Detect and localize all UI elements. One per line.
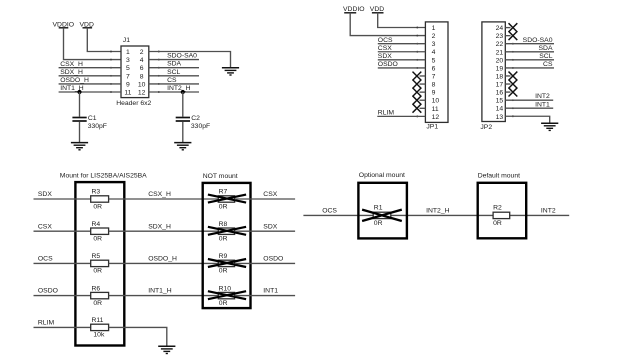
wire net OSDO_H to J1 pin 9 xyxy=(59,83,121,85)
svg-text:SCL: SCL xyxy=(167,69,180,76)
wire INT1_H to C1 xyxy=(79,92,81,117)
svg-text:0R: 0R xyxy=(93,268,102,275)
resistor R10 0R xyxy=(218,285,234,307)
svg-text:R6: R6 xyxy=(92,285,101,292)
svg-text:OSDO: OSDO xyxy=(378,61,398,68)
no-connect JP2 pin 18 xyxy=(505,72,517,81)
svg-text:15: 15 xyxy=(496,98,504,105)
no-connect JP2 pin 24 xyxy=(505,23,517,32)
svg-text:SDA: SDA xyxy=(539,45,553,52)
svg-text:4: 4 xyxy=(140,57,144,64)
svg-text:SCL: SCL xyxy=(539,53,552,60)
no-connect JP2 pin 16 xyxy=(505,88,517,97)
wire net SDX from R8 xyxy=(235,230,296,232)
svg-text:SDX_H: SDX_H xyxy=(148,223,171,230)
wire VDD to J1 pin 1 xyxy=(87,28,121,52)
connector J1 Header 6x2 xyxy=(110,37,160,107)
wire net CSX_H to J1 pin 5 xyxy=(59,67,121,69)
wire net CSX to JP1 pin 4 xyxy=(378,51,426,53)
wire net CS from JP2 pin 19 xyxy=(505,67,554,69)
svg-text:R1: R1 xyxy=(374,205,383,212)
svg-text:JP1: JP1 xyxy=(426,124,438,131)
svg-text:2: 2 xyxy=(432,33,436,40)
svg-text:5: 5 xyxy=(126,65,130,72)
svg-text:VDD: VDD xyxy=(370,6,384,13)
svg-text:INT1: INT1 xyxy=(263,288,278,295)
not-mounted cross over R8 xyxy=(208,227,246,235)
svg-text:6: 6 xyxy=(140,65,144,72)
svg-text:3: 3 xyxy=(432,41,436,48)
svg-text:11: 11 xyxy=(432,106,439,113)
svg-text:19: 19 xyxy=(496,65,504,72)
wire net SCL from JP2 pin 20 xyxy=(505,59,554,61)
svg-text:16: 16 xyxy=(496,90,504,97)
svg-text:5: 5 xyxy=(432,57,436,64)
svg-text:INT2: INT2 xyxy=(535,93,550,100)
box Default mount xyxy=(478,183,527,239)
ground below C1 xyxy=(71,143,88,150)
junction node INT1_H xyxy=(77,90,81,94)
ground below C2 xyxy=(174,143,191,150)
svg-text:0R: 0R xyxy=(219,236,228,243)
no-connect JP1 pin 10 xyxy=(413,96,426,105)
box Mount for LIS25BA/AIS25BA xyxy=(75,182,124,345)
no-connect JP2 pin 23 xyxy=(505,31,517,40)
svg-text:OSDO_H: OSDO_H xyxy=(148,256,177,263)
no-connect JP1 pin 9 xyxy=(413,88,426,97)
wire net INT1_H to J1 pin 11 xyxy=(59,91,121,93)
wire net SDX to JP1 pin 5 xyxy=(378,59,426,61)
svg-text:R4: R4 xyxy=(92,221,101,228)
wire VDDIO to JP1 pin 2 xyxy=(350,13,425,36)
no-connect JP2 pin 17 xyxy=(505,80,517,89)
wire INT2_H to C2 xyxy=(182,92,184,117)
svg-text:Optional mount: Optional mount xyxy=(359,172,405,179)
not-mounted cross over R10 xyxy=(208,291,246,299)
svg-text:CSX: CSX xyxy=(263,191,277,198)
svg-text:11: 11 xyxy=(124,90,131,97)
svg-text:INT2_H: INT2_H xyxy=(426,207,450,214)
wire net CSX to R4 xyxy=(34,230,91,232)
svg-text:21: 21 xyxy=(496,49,504,56)
svg-text:20: 20 xyxy=(496,57,504,64)
svg-text:12: 12 xyxy=(432,114,440,121)
svg-text:CS: CS xyxy=(167,77,177,84)
wire net INT1 from R10 xyxy=(235,295,296,297)
svg-text:CS: CS xyxy=(543,61,553,68)
svg-text:OCS: OCS xyxy=(378,37,393,44)
svg-text:RLIM: RLIM xyxy=(378,109,395,116)
svg-text:SDX_H: SDX_H xyxy=(60,69,83,76)
wire net SDA from J1 pin 6 xyxy=(149,67,199,69)
svg-text:4: 4 xyxy=(432,49,436,56)
svg-text:OSDO_H: OSDO_H xyxy=(60,77,89,84)
connector JP2 xyxy=(480,22,513,131)
wire J1 pin 2 to ground xyxy=(149,52,231,68)
wire net RLIM to JP1 pin 12 xyxy=(377,115,425,117)
no-connect JP1 pin 11 xyxy=(413,104,426,113)
svg-text:C2: C2 xyxy=(191,115,200,122)
wire net CS from J1 pin 10 xyxy=(149,83,199,85)
wire R11 to ground xyxy=(109,327,167,346)
not-mounted cross over R1 xyxy=(362,210,402,221)
ground at JP2 pin 13 xyxy=(541,123,558,130)
wire C2 to ground xyxy=(182,122,184,143)
resistor R1 0R xyxy=(373,205,391,227)
svg-text:17: 17 xyxy=(496,82,504,89)
svg-text:SDX: SDX xyxy=(263,223,277,230)
wire net INT1 from JP2 pin 14 xyxy=(505,107,553,109)
wire net INT1_H from R6 to R10 xyxy=(109,295,219,297)
svg-text:R11: R11 xyxy=(92,317,104,324)
wire net OCS to JP1 pin 3 xyxy=(378,43,426,45)
resistor R3 0R xyxy=(91,189,109,211)
ground below R11 xyxy=(158,346,175,353)
resistor R7 0R xyxy=(218,189,234,211)
svg-text:SDX: SDX xyxy=(38,191,52,198)
svg-text:INT1_H: INT1_H xyxy=(148,288,172,295)
svg-text:1: 1 xyxy=(432,25,436,32)
svg-text:Default mount: Default mount xyxy=(478,172,520,179)
svg-text:12: 12 xyxy=(138,90,146,97)
svg-text:OCS: OCS xyxy=(322,207,337,214)
svg-text:0R: 0R xyxy=(493,220,502,227)
wire net INT2 from JP2 pin 15 xyxy=(505,99,553,101)
wire net OSDO to R6 xyxy=(34,295,91,297)
svg-text:CSX: CSX xyxy=(378,45,392,52)
svg-text:6: 6 xyxy=(432,65,436,72)
svg-text:SDO-SA0: SDO-SA0 xyxy=(167,53,197,60)
wire net SDX_H from R4 to R8 xyxy=(109,230,219,232)
power symbol VDD xyxy=(370,6,384,13)
svg-text:330pF: 330pF xyxy=(191,123,210,130)
svg-text:RLIM: RLIM xyxy=(38,320,55,327)
svg-text:0R: 0R xyxy=(219,300,228,307)
svg-text:SDX: SDX xyxy=(378,53,392,60)
not-mounted cross over R7 xyxy=(208,195,246,203)
svg-text:INT2_H: INT2_H xyxy=(167,85,191,92)
svg-text:INT1: INT1 xyxy=(535,101,550,108)
wire net SDX to R3 xyxy=(34,198,91,200)
svg-text:SDO-SA0: SDO-SA0 xyxy=(523,37,553,44)
no-connect JP1 pin 7 xyxy=(413,72,426,81)
not-mounted cross over R9 xyxy=(208,259,246,267)
svg-text:CSX_H: CSX_H xyxy=(60,61,83,68)
svg-text:0R: 0R xyxy=(374,220,383,227)
svg-text:R5: R5 xyxy=(92,253,101,260)
box NOT mount xyxy=(203,183,251,308)
box Optional mount xyxy=(358,183,407,239)
resistor R2 0R xyxy=(493,205,510,227)
wire net SDX_H to J1 pin 7 xyxy=(59,75,121,77)
wire net RLIM to R11 xyxy=(34,326,91,328)
wire JP2 pin 13 to ground xyxy=(505,116,549,123)
svg-text:2: 2 xyxy=(140,49,144,56)
power symbol VDDIO xyxy=(343,6,365,13)
svg-text:Header 6x2: Header 6x2 xyxy=(116,100,151,107)
wire net SDA from JP2 pin 21 xyxy=(505,51,554,53)
resistor R9 0R xyxy=(218,253,234,275)
svg-text:1: 1 xyxy=(126,49,130,56)
svg-text:0R: 0R xyxy=(219,203,228,210)
svg-text:24: 24 xyxy=(496,25,504,32)
svg-text:OSDO: OSDO xyxy=(38,288,58,295)
svg-text:R9: R9 xyxy=(219,253,228,260)
svg-text:0R: 0R xyxy=(93,203,102,210)
svg-text:OCS: OCS xyxy=(38,256,53,263)
junction node INT2_H xyxy=(181,90,185,94)
capacitor C1 330pF xyxy=(72,115,107,130)
wire net OSDO_H from R5 to R9 xyxy=(109,262,219,264)
no-connect JP1 pin 8 xyxy=(413,80,426,89)
wire net CSX from R7 xyxy=(235,198,296,200)
svg-text:330pF: 330pF xyxy=(88,123,107,130)
wire net OCS to R5 xyxy=(34,262,91,264)
svg-text:INT2: INT2 xyxy=(541,207,556,214)
svg-text:Mount for LIS25BA/AIS25BA: Mount for LIS25BA/AIS25BA xyxy=(60,172,147,179)
svg-text:0R: 0R xyxy=(93,236,102,243)
wire net OCS / INT2_H / INT2 xyxy=(303,214,569,216)
resistor R8 0R xyxy=(218,221,234,243)
power symbol VDDIO xyxy=(53,21,75,28)
svg-text:9: 9 xyxy=(432,90,436,97)
wire net CSX_H from R3 to R7 xyxy=(109,198,219,200)
svg-text:9: 9 xyxy=(126,81,130,88)
resistor R5 0R xyxy=(91,253,109,275)
ground at J1 pin 2 xyxy=(222,68,239,75)
capacitor C2 330pF xyxy=(176,115,210,130)
svg-text:14: 14 xyxy=(496,106,504,113)
wire net SDO-SA0 from J1 pin 4 xyxy=(149,59,199,61)
wire VDDIO to J1 pin 3 xyxy=(64,28,122,60)
svg-text:JP2: JP2 xyxy=(480,124,492,131)
wire net SDO-SA0 from JP2 pin 22 xyxy=(505,43,554,45)
svg-text:8: 8 xyxy=(432,82,436,89)
wire C1 to ground xyxy=(79,122,81,143)
svg-text:10k: 10k xyxy=(93,332,105,339)
svg-text:3: 3 xyxy=(126,57,130,64)
svg-text:R8: R8 xyxy=(219,221,228,228)
svg-text:10: 10 xyxy=(138,81,146,88)
resistor R4 0R xyxy=(91,221,109,243)
svg-text:R10: R10 xyxy=(219,285,232,292)
svg-text:VDDIO: VDDIO xyxy=(343,6,365,13)
wire VDD to JP1 pin 1 xyxy=(378,13,426,28)
wire net OSDO from R9 xyxy=(235,262,296,264)
wire net OSDO to JP1 pin 6 xyxy=(378,67,426,69)
connector JP1 xyxy=(416,22,448,131)
svg-text:J1: J1 xyxy=(123,37,130,44)
svg-text:18: 18 xyxy=(496,73,504,80)
wire net SCL from J1 pin 8 xyxy=(149,75,199,77)
wire net INT2_H from J1 pin 12 xyxy=(149,91,199,93)
resistor R11 10k xyxy=(91,317,109,339)
svg-text:23: 23 xyxy=(496,33,504,40)
svg-text:SDA: SDA xyxy=(167,61,181,68)
power symbol VDD xyxy=(80,21,94,28)
svg-text:R2: R2 xyxy=(493,205,502,212)
svg-text:OSDO: OSDO xyxy=(263,256,283,263)
svg-text:13: 13 xyxy=(496,114,504,121)
svg-text:R7: R7 xyxy=(219,189,228,196)
svg-text:CSX: CSX xyxy=(38,223,52,230)
svg-text:C1: C1 xyxy=(88,115,97,122)
svg-text:CSX_H: CSX_H xyxy=(148,191,171,198)
resistor R6 0R xyxy=(91,285,109,307)
svg-text:22: 22 xyxy=(496,41,504,48)
svg-text:7: 7 xyxy=(126,73,130,80)
svg-text:0R: 0R xyxy=(93,300,102,307)
svg-text:R3: R3 xyxy=(92,189,101,196)
svg-text:NOT mount: NOT mount xyxy=(203,173,238,180)
svg-text:0R: 0R xyxy=(219,268,228,275)
svg-text:8: 8 xyxy=(140,73,144,80)
svg-text:10: 10 xyxy=(432,98,440,105)
svg-text:7: 7 xyxy=(432,73,436,80)
